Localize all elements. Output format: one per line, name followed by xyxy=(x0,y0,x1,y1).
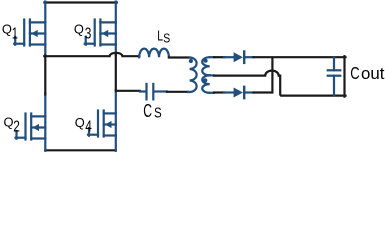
svg-text:Q: Q xyxy=(74,22,84,37)
svg-text:1: 1 xyxy=(12,26,18,43)
svg-text:out: out xyxy=(361,64,385,83)
svg-text:2: 2 xyxy=(13,119,20,136)
svg-text:Q: Q xyxy=(2,22,12,37)
svg-text:4: 4 xyxy=(85,119,92,136)
svg-text:C: C xyxy=(143,100,152,121)
svg-text:S: S xyxy=(163,31,170,46)
svg-text:C: C xyxy=(350,63,360,83)
svg-text:L: L xyxy=(157,29,163,45)
svg-text:3: 3 xyxy=(85,26,92,43)
svg-text:Q: Q xyxy=(75,115,85,130)
svg-text:S: S xyxy=(154,106,162,122)
svg-text:Q: Q xyxy=(4,115,14,130)
